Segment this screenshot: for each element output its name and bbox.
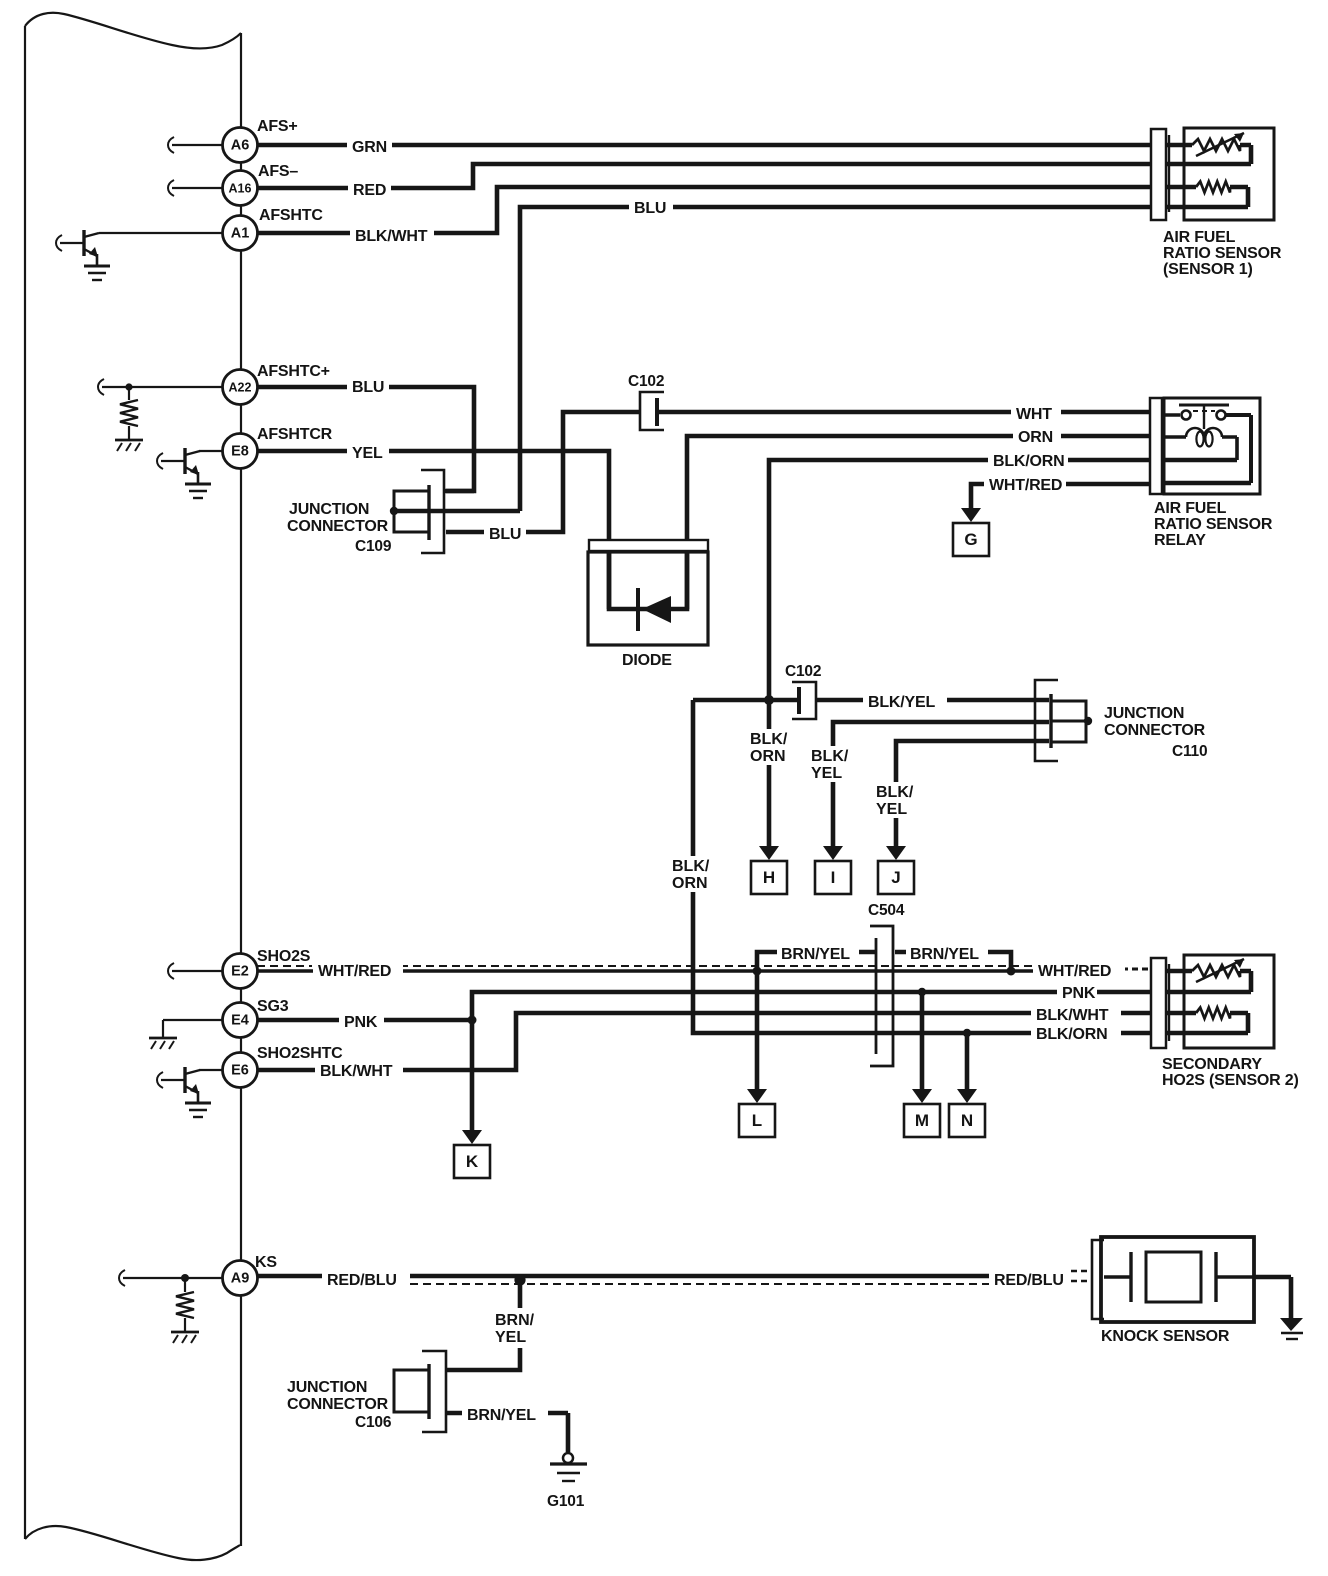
svg-text:ORN: ORN: [750, 748, 786, 765]
svg-text:BRN/YEL: BRN/YEL: [910, 946, 979, 963]
label WHT/RED: [984, 474, 1066, 491]
svg-text:G101: G101: [547, 1493, 585, 1510]
svg-text:BLK/ORN: BLK/ORN: [993, 453, 1064, 470]
ECM pin A22: [223, 370, 258, 405]
svg-text:BLU: BLU: [489, 526, 521, 543]
svg-text:C109: C109: [355, 538, 392, 555]
svg-text:KNOCK SENSOR: KNOCK SENSOR: [1101, 1328, 1230, 1345]
label WHT/RED: [313, 959, 403, 978]
svg-text:E6: E6: [231, 1063, 249, 1079]
label BRN/YEL: [777, 942, 859, 960]
svg-text:AIR FUEL: AIR FUEL: [1163, 229, 1236, 246]
arrow and box M: [912, 1089, 932, 1103]
label BLK/WHT: [350, 224, 434, 243]
ECM top torn edge: [25, 13, 241, 49]
wire WHT/RED relay to G arrow: [971, 484, 1151, 510]
ECM pin E4: [223, 1003, 258, 1038]
label RED/BLU: [322, 1267, 410, 1287]
wire BLK/WHT E6 to sensor2: [257, 1013, 1151, 1070]
svg-text:JUNCTION: JUNCTION: [1104, 705, 1184, 722]
connector C504: [870, 926, 893, 1066]
svg-text:A22: A22: [229, 381, 252, 395]
label GRN: [347, 136, 392, 154]
svg-text:SECONDARY: SECONDARY: [1162, 1056, 1262, 1073]
knock sensor box: [1101, 1237, 1254, 1322]
svg-text:A16: A16: [229, 182, 252, 196]
svg-text:E4: E4: [231, 1013, 249, 1029]
svg-text:BLU: BLU: [634, 200, 666, 217]
svg-text:BLK/WHT: BLK/WHT: [355, 228, 428, 245]
svg-text:C102: C102: [785, 663, 821, 680]
label WHT/RED: [1033, 959, 1125, 978]
svg-text:JUNCTION: JUNCTION: [289, 501, 369, 518]
svg-text:CONNECTOR: CONNECTOR: [287, 1396, 389, 1413]
label BLU: [347, 377, 389, 395]
wire WHT/RED shield dashes: [257, 965, 1038, 967]
svg-text:BLK/WHT: BLK/WHT: [1036, 1007, 1109, 1024]
svg-text:BRN/: BRN/: [495, 1312, 535, 1329]
ECM pin A6: [223, 128, 258, 163]
wire WHT C102 to relay: [658, 410, 1151, 415]
chassis ground below A22 coil: [115, 439, 143, 442]
node A16 left wire: [172, 187, 223, 189]
svg-text:SHO2SHTC: SHO2SHTC: [257, 1045, 343, 1062]
arrow and box G: [961, 508, 981, 522]
label RED/BLU: [989, 1267, 1071, 1287]
wire WHT/RED dashes to sensor2: [1122, 968, 1151, 971]
arrow and box H: [759, 846, 779, 860]
junction connector C106: [422, 1351, 446, 1432]
label BLK/ORN: [988, 450, 1068, 467]
ECM right border: [240, 33, 242, 1546]
wire N drop: [965, 1033, 970, 1089]
svg-text:RATIO SENSOR: RATIO SENSOR: [1163, 245, 1282, 262]
air fuel ratio sensor (sensor 1) box: [1184, 128, 1274, 220]
junction dot: [918, 988, 926, 996]
svg-text:WHT: WHT: [1016, 406, 1052, 423]
wire RED A16 to sensor1 (steps up): [257, 164, 1151, 188]
junction dot: [963, 1029, 971, 1037]
svg-text:A9: A9: [231, 1271, 250, 1287]
wire label (stacked): [748, 729, 792, 765]
svg-text:WHT/RED: WHT/RED: [318, 963, 391, 980]
label BLK/YEL: [863, 690, 947, 709]
wire BLK/ORN relay down to BLK/YEL junction: [769, 460, 1151, 700]
relay contacts: [1162, 413, 1180, 417]
ECM left border: [24, 26, 26, 1539]
diode symbol: [636, 588, 640, 631]
arrow and box N: [957, 1089, 977, 1103]
wire BLU C109 bottom pin up to C102/WHT: [446, 412, 640, 532]
chassis ground below A9 coil: [171, 1331, 199, 1334]
ECM pin E6: [223, 1053, 258, 1088]
label BRN/YEL: [906, 942, 988, 960]
svg-text:SHO2S: SHO2S: [257, 948, 311, 965]
label BLK/WHT: [1031, 1003, 1121, 1022]
relay switch bar: [1179, 404, 1229, 407]
ECM pin A16: [223, 171, 258, 206]
svg-text:JUNCTION: JUNCTION: [287, 1379, 367, 1396]
knock sensor bracket: [1092, 1240, 1104, 1319]
svg-text:BLK/: BLK/: [672, 858, 710, 875]
svg-text:WHT/RED: WHT/RED: [989, 477, 1062, 494]
junction dot: [764, 695, 774, 705]
svg-text:HO2S (SENSOR 2): HO2S (SENSOR 2): [1162, 1072, 1299, 1089]
wire label (stacked): [809, 746, 853, 782]
ECM pin E2: [223, 954, 258, 989]
svg-text:AFS–: AFS–: [258, 163, 298, 180]
node A22 left wire: [102, 386, 223, 388]
label YEL: [347, 443, 389, 461]
svg-text:AFSHTCR: AFSHTCR: [257, 426, 333, 443]
svg-text:A1: A1: [231, 226, 250, 242]
wire C109 middle pin to BLU vertical: [394, 509, 520, 514]
label PNK: [339, 1010, 384, 1029]
node A9 left wire: [123, 1277, 223, 1279]
svg-text:H: H: [763, 868, 775, 887]
svg-text:BLK/WHT: BLK/WHT: [320, 1063, 393, 1080]
sensor2 loop 2: [1166, 1013, 1248, 1033]
wire BRN/YEL right of C504: [895, 952, 1011, 971]
air fuel ratio sensor (sensor 1) connector: [1151, 129, 1166, 220]
svg-text:PNK: PNK: [1062, 985, 1096, 1002]
svg-text:I: I: [831, 868, 836, 887]
svg-text:ORN: ORN: [672, 875, 708, 892]
svg-text:A6: A6: [231, 138, 250, 154]
svg-text:ORN: ORN: [1018, 429, 1053, 446]
ground G101: [563, 1453, 573, 1463]
wire RED/BLU dashes near knock sensor: [1071, 1271, 1091, 1281]
svg-text:RED/BLU: RED/BLU: [327, 1272, 397, 1289]
svg-text:L: L: [752, 1111, 762, 1130]
svg-text:RELAY: RELAY: [1154, 532, 1206, 549]
ECM pin E8: [223, 434, 258, 469]
sensor1 heater loop 2: [1166, 187, 1248, 207]
svg-text:YEL: YEL: [352, 445, 383, 462]
wire BRN/YEL left of C504: [757, 952, 875, 1089]
sensor1 variable arrow: [1196, 133, 1244, 156]
label PNK: [1057, 981, 1097, 1000]
secondary HO2S (sensor 2) connector: [1151, 958, 1166, 1048]
wire BLK/YEL C110 pin2 to I: [833, 722, 1049, 846]
label RED: [348, 179, 391, 197]
svg-text:SG3: SG3: [257, 998, 289, 1015]
resistor coil below A9 wire: [181, 1274, 189, 1282]
wire WHT/RED E2 solid: [257, 969, 1035, 972]
wire BLK/YEL to C102 and C110: [693, 698, 798, 703]
svg-text:BRN/YEL: BRN/YEL: [781, 946, 850, 963]
wire YEL E8 to diode: [257, 451, 609, 609]
connector C102 (BLK/YEL wire): [792, 682, 816, 719]
svg-text:AIR FUEL: AIR FUEL: [1154, 500, 1227, 517]
wire GRN A6 to sensor1: [257, 143, 1151, 148]
svg-text:C110: C110: [1172, 743, 1207, 760]
knock sensor ground: [1254, 1277, 1291, 1319]
wire BLK/ORN long vertical down to sensor2 row: [693, 700, 1151, 1033]
svg-text:AFS+: AFS+: [257, 118, 298, 135]
wire BRN/YEL down to C106: [446, 1280, 520, 1370]
svg-text:PNK: PNK: [344, 1014, 378, 1031]
wire BLU from C109 up to sensor1 pin4: [520, 207, 1151, 511]
transistor at A1: [99, 232, 223, 234]
ECM pin A9: [223, 1261, 258, 1296]
label BLU wire4: [629, 198, 673, 216]
label WHT: [1011, 403, 1061, 421]
node E4 left wire to ground: [163, 1020, 223, 1037]
svg-text:AFSHTC: AFSHTC: [259, 207, 323, 224]
svg-text:BRN/YEL: BRN/YEL: [467, 1407, 536, 1424]
wire RED/BLU A9 to knock sensor: [257, 1274, 989, 1279]
wire label (stacked): [493, 1308, 537, 1348]
svg-text:CONNECTOR: CONNECTOR: [1104, 722, 1206, 739]
wire ORN relay to diode: [687, 436, 1151, 609]
svg-text:C106: C106: [355, 1414, 392, 1431]
svg-text:E2: E2: [231, 964, 249, 980]
svg-text:YEL: YEL: [876, 801, 907, 818]
arrow and box K: [462, 1130, 482, 1144]
svg-text:(SENSOR 1): (SENSOR 1): [1163, 261, 1253, 278]
ECM pin A1: [223, 216, 258, 251]
arrow and box L: [747, 1089, 767, 1103]
label BLK/ORN: [1031, 1023, 1121, 1041]
junction dot: [1007, 967, 1016, 976]
wire BLU A22 down to C109 pin1: [257, 387, 474, 491]
svg-text:E8: E8: [231, 444, 249, 460]
wire RED/BLU shield dashes: [410, 1283, 989, 1285]
svg-text:C504: C504: [868, 902, 905, 919]
resistor coil below A22 wire: [125, 383, 132, 390]
svg-text:RATIO SENSOR: RATIO SENSOR: [1154, 516, 1273, 533]
svg-text:BLK/: BLK/: [811, 748, 849, 765]
arrow and box I: [823, 846, 843, 860]
arrow and box J: [886, 846, 906, 860]
transistor at E6: [199, 1069, 223, 1071]
svg-text:RED/BLU: RED/BLU: [994, 1272, 1064, 1289]
svg-text:YEL: YEL: [811, 765, 842, 782]
node A6 left wire: [172, 144, 223, 146]
svg-text:BLK/ORN: BLK/ORN: [1036, 1026, 1107, 1043]
junction dot: [514, 1274, 525, 1285]
wire PNK E4 up and to sensor2: [257, 992, 1151, 1020]
transistor at E8: [199, 450, 223, 452]
diode assembly: [589, 540, 708, 551]
node E2 left wire: [172, 970, 223, 972]
label BLK/WHT: [315, 1060, 403, 1079]
svg-text:BLK/: BLK/: [876, 784, 914, 801]
label BRN/YEL: [462, 1403, 548, 1422]
svg-text:BLU: BLU: [352, 379, 384, 396]
svg-text:CONNECTOR: CONNECTOR: [287, 518, 389, 535]
sensor1 heater loop 1: [1166, 145, 1251, 164]
air fuel ratio sensor relay: [1150, 398, 1162, 494]
wire label (stacked): [874, 782, 918, 818]
svg-text:K: K: [466, 1152, 479, 1171]
junction connector C109: [421, 470, 444, 553]
wire BRN/YEL C106 to G101: [446, 1413, 568, 1452]
svg-text:KS: KS: [255, 1254, 277, 1271]
secondary HO2S (sensor 2) box: [1184, 955, 1274, 1048]
junction dot: [468, 1016, 477, 1025]
relay coil: [1162, 435, 1186, 439]
wire K drop: [470, 1020, 475, 1130]
svg-text:GRN: GRN: [352, 139, 387, 156]
sensor2 variable arrow: [1196, 959, 1244, 982]
connector C102 (WHT wire): [640, 392, 664, 430]
svg-text:DIODE: DIODE: [622, 652, 672, 669]
svg-text:N: N: [961, 1111, 973, 1130]
junction connector C110: [1035, 680, 1058, 761]
svg-text:RED: RED: [353, 182, 386, 199]
wire H drop: [767, 700, 772, 846]
svg-text:G: G: [964, 530, 977, 549]
svg-text:YEL: YEL: [495, 1329, 526, 1346]
svg-text:J: J: [891, 868, 900, 887]
ECM bottom torn edge: [25, 1526, 240, 1560]
svg-text:M: M: [915, 1111, 929, 1130]
wire M drop: [920, 992, 925, 1089]
wire BLK/WHT A1 to sensor1 (steps up): [257, 187, 1151, 233]
svg-text:BLK/YEL: BLK/YEL: [868, 694, 935, 711]
svg-text:WHT/RED: WHT/RED: [1038, 963, 1111, 980]
label BLU: [484, 523, 526, 542]
svg-text:BLK/: BLK/: [750, 731, 788, 748]
svg-text:C102: C102: [628, 373, 664, 390]
sensor2 loop 1: [1166, 971, 1251, 992]
label ORN: [1013, 427, 1061, 444]
svg-text:AFSHTC+: AFSHTC+: [257, 363, 330, 380]
wire BLK/YEL C110 pin3 to J: [896, 741, 1049, 846]
wire label (stacked): [670, 856, 714, 892]
junction dot: [753, 967, 762, 976]
